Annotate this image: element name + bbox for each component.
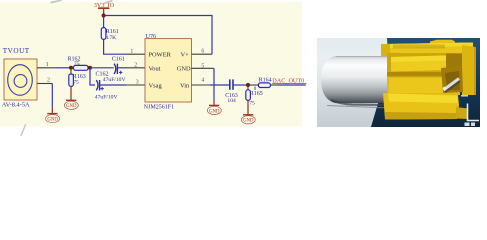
svg-text:47uF/10V: 47uF/10V xyxy=(103,77,126,83)
wire node B to C161 xyxy=(90,67,114,69)
wire R162 to node B xyxy=(88,67,90,69)
wire node A to R162 xyxy=(71,67,74,69)
resistor R161 body xyxy=(101,28,106,40)
wire C163 to node C xyxy=(233,84,248,86)
connector TVOUT body xyxy=(4,59,37,100)
svg-text:4.7K: 4.7K xyxy=(105,35,116,41)
metal pin xyxy=(445,81,460,92)
svg-text:GND: GND xyxy=(66,104,77,109)
junction node A xyxy=(69,66,73,70)
ground GND under R165 xyxy=(241,115,255,124)
resistor R164 body xyxy=(258,83,270,88)
svg-text:GND: GND xyxy=(209,109,220,114)
photo of RCA jack on PCB xyxy=(317,38,480,127)
U76 pin 5 xyxy=(192,67,214,69)
svg-text:1: 1 xyxy=(46,62,49,68)
svg-text:1: 1 xyxy=(130,49,133,55)
svg-text:NJM2561F1: NJM2561F1 xyxy=(144,104,174,110)
yellow connector: lower band xyxy=(387,72,460,95)
svg-text:AV-8.4-5A: AV-8.4-5A xyxy=(2,102,30,109)
wire R161 to U76 pin 1 xyxy=(104,39,126,54)
svg-text:POWER: POWER xyxy=(149,52,172,59)
svg-text:104: 104 xyxy=(227,98,236,104)
svg-text:75: 75 xyxy=(73,80,79,86)
capacitor C163 xyxy=(230,79,233,89)
svg-text:2: 2 xyxy=(47,78,50,84)
wire R165 to ground xyxy=(247,100,249,114)
junction node C xyxy=(246,83,250,87)
wire R163 to ground xyxy=(70,86,72,100)
wire 3V3 down to R161 xyxy=(103,16,105,28)
capacitor C161 (polarized) xyxy=(114,64,117,74)
U76 pin 4 xyxy=(192,84,211,86)
capacitor C162 (polarized) xyxy=(96,80,99,90)
svg-text:6: 6 xyxy=(201,49,204,55)
svg-text:Vout: Vout xyxy=(149,66,161,73)
junction node B xyxy=(88,66,92,70)
U76 pin 6 xyxy=(192,53,213,55)
TVOUT pin 2 xyxy=(37,83,52,85)
resistor R165 pin from node C xyxy=(247,85,249,90)
svg-text:Vin: Vin xyxy=(180,82,190,89)
yellow connector: right wall xyxy=(462,45,476,95)
svg-text:GND: GND xyxy=(47,118,58,123)
svg-text:4: 4 xyxy=(201,77,204,83)
table edge line xyxy=(327,106,391,109)
wire C162 to U76 pin 3 xyxy=(100,84,126,86)
TVOUT pin 1 xyxy=(37,67,57,69)
svg-text:R161: R161 xyxy=(106,29,119,35)
U76 pin 1 xyxy=(126,53,145,55)
photo background (table) xyxy=(317,38,480,127)
U76 pin 3 xyxy=(126,84,145,86)
wire C161 to U76 pin 2 xyxy=(117,67,126,69)
svg-text:TVOUT: TVOUT xyxy=(3,47,30,55)
yellow connector: left column xyxy=(381,44,390,56)
wire pin 4 to C163 xyxy=(210,84,230,86)
yellow connector: mid recess xyxy=(387,53,472,73)
svg-text:V+: V+ xyxy=(181,52,190,59)
svg-text:2: 2 xyxy=(134,62,137,68)
svg-text:C162: C162 xyxy=(96,71,109,77)
yellow connector: top band xyxy=(384,43,473,55)
wire 3V3 rail to V+ riser xyxy=(104,16,212,55)
recess around pin xyxy=(441,66,463,93)
ground GND under R163 xyxy=(64,100,78,109)
svg-text:R165: R165 xyxy=(250,91,263,97)
svg-text:75: 75 xyxy=(249,100,255,106)
wire node C to R164 xyxy=(250,84,258,86)
wire pin 5 down to ground xyxy=(213,68,215,101)
junction node 3V3 xyxy=(102,14,106,18)
RCA barrel (metal) xyxy=(321,56,387,103)
resistor R163 pin from node A xyxy=(70,68,72,74)
ground GND under pin 5 xyxy=(207,105,221,114)
wire node B down to row of C162 xyxy=(90,68,95,85)
wire R164 to DAC_OUT0 xyxy=(277,84,306,86)
svg-text:3: 3 xyxy=(136,79,139,85)
resistor R165 body xyxy=(246,90,251,101)
resistor R162 body xyxy=(74,65,89,70)
wire pin1 to node A xyxy=(57,67,72,69)
svg-text:5: 5 xyxy=(201,64,204,70)
U76 pin 2 xyxy=(126,67,145,69)
svg-text:C161: C161 xyxy=(112,56,125,62)
PCB (navy) xyxy=(371,38,480,127)
op-amp U76 body xyxy=(145,39,192,102)
R164 right pin xyxy=(270,84,277,86)
silkscreen bracket on PCB xyxy=(468,104,480,121)
wire TVOUT pin2 down xyxy=(51,84,53,108)
schematic sheet background xyxy=(0,2,302,127)
silkscreen text fragments xyxy=(465,123,470,127)
yellow connector: top tabs xyxy=(430,40,455,50)
svg-text:47uF/10V: 47uF/10V xyxy=(95,94,118,100)
yellow connector: bottom slab xyxy=(383,93,459,120)
ground GND under TVOUT pin2 xyxy=(51,107,53,113)
resistor R163 body xyxy=(69,74,74,86)
svg-text:GND: GND xyxy=(177,66,191,73)
svg-text:Vsag: Vsag xyxy=(149,82,163,89)
white page background xyxy=(0,0,487,138)
svg-text:GND: GND xyxy=(243,119,254,124)
